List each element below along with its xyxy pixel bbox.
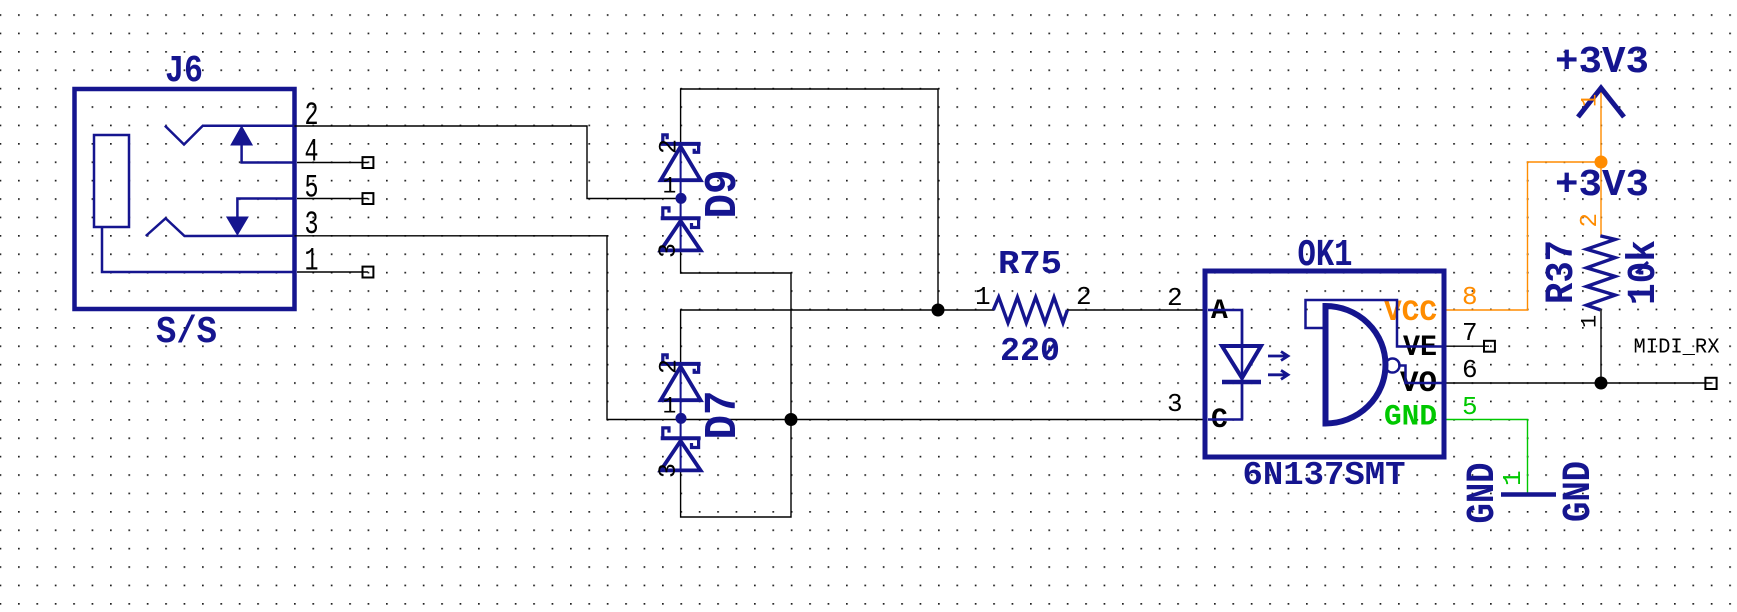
diode D9 (dual): [661, 135, 701, 251]
svg-text:1: 1: [305, 243, 319, 280]
wire node to R75.1: [938, 309, 994, 311]
svg-text:1: 1: [975, 282, 991, 312]
svg-text:3: 3: [654, 243, 683, 258]
svg-text:2: 2: [1076, 282, 1092, 312]
J6 pin 5 stub: [297, 198, 368, 200]
OK1 light arrows: [1268, 352, 1288, 361]
svg-text:+3V3: +3V3: [1555, 41, 1649, 84]
OK1 internal LED: [1222, 346, 1261, 378]
wire VCC net pin8 to +3V3: [1447, 162, 1602, 310]
svg-text:1: 1: [1578, 94, 1603, 107]
resistor R75: [993, 297, 1067, 323]
svg-text:2: 2: [655, 139, 684, 154]
wire +3V3 vertical: [1600, 90, 1602, 236]
svg-text:D7: D7: [698, 391, 749, 440]
ground bar: [1501, 492, 1556, 497]
svg-text:3: 3: [1167, 389, 1183, 419]
J6 sleeve contact: [94, 135, 129, 227]
OK1 pin 7 stub: [1447, 345, 1490, 347]
svg-text:3: 3: [305, 206, 319, 243]
svg-text:VE: VE: [1403, 331, 1437, 365]
svg-text:R75: R75: [998, 246, 1062, 283]
svg-text:S/S: S/S: [156, 311, 217, 354]
J6 tip switch arrow to pin 4: [242, 145, 295, 163]
svg-text:J6: J6: [165, 50, 203, 93]
wire D7.2 to R75 node: [681, 310, 938, 364]
R37 zero slash: [1636, 262, 1648, 273]
OK1 gate bubble: [1386, 359, 1400, 373]
junction node R75 input: [932, 304, 945, 317]
svg-text:2: 2: [305, 97, 319, 134]
junction +3V3 node: [1595, 156, 1608, 169]
svg-text:8: 8: [1462, 282, 1478, 312]
wire J6.3 to D7.1: [295, 236, 682, 420]
J6 ring contact: [146, 218, 295, 236]
svg-text:GND: GND: [1384, 401, 1437, 435]
svg-text:+3V3: +3V3: [1555, 164, 1649, 207]
R75 zero slash: [1044, 342, 1056, 357]
svg-text:1: 1: [663, 394, 677, 420]
wire J6.2 to D9.1: [295, 126, 682, 199]
svg-text:5: 5: [1462, 392, 1478, 422]
svg-text:1: 1: [663, 174, 677, 200]
svg-text:220: 220: [1000, 333, 1060, 370]
wire D7.1 to OK1.C: [681, 419, 1205, 421]
supply +3V3 symbol: [1578, 88, 1624, 117]
svg-text:6N137SMT: 6N137SMT: [1243, 457, 1406, 494]
wire R37.1 to VO node: [1600, 310, 1602, 383]
svg-text:1: 1: [1498, 470, 1528, 486]
OK1 gate: [1326, 306, 1386, 424]
svg-text:2: 2: [655, 359, 684, 374]
svg-text:10k: 10k: [1622, 240, 1667, 305]
resistor R37: [1587, 236, 1616, 310]
J6 ring switch arrow to pin 5: [237, 199, 294, 218]
svg-text:6: 6: [1462, 355, 1478, 385]
svg-text:5: 5: [305, 170, 319, 207]
J6 pin 1 stub: [297, 271, 368, 273]
OK1 bubble to VO: [1400, 366, 1445, 384]
OK1 internal LED wiring: [1208, 310, 1242, 346]
svg-text:MIDI_RX: MIDI_RX: [1634, 337, 1720, 360]
svg-text:7: 7: [1462, 318, 1478, 348]
wire D9.2 loop to R75 node: [681, 89, 938, 310]
diode D7 (dual): [661, 355, 701, 471]
wire D9.3 to D7.3 loop: [681, 250, 791, 517]
junction node C row: [785, 413, 798, 426]
svg-text:2: 2: [1577, 213, 1604, 227]
J6 pin 4 stub: [297, 162, 368, 164]
svg-text:D9: D9: [698, 170, 749, 219]
svg-text:GND: GND: [1557, 461, 1602, 522]
connector J6: [75, 89, 295, 309]
svg-text:R37: R37: [1540, 240, 1585, 304]
wire GND net pin5: [1447, 420, 1528, 494]
junction VO node: [1595, 377, 1608, 390]
svg-text:3: 3: [654, 463, 683, 478]
svg-text:2: 2: [1167, 283, 1183, 313]
J6 sleeve wire to pin 1: [102, 227, 295, 272]
J6 tip contact: [165, 126, 295, 145]
svg-text:OK1: OK1: [1298, 234, 1353, 277]
MIDI_RX endpoint square: [1705, 378, 1716, 389]
opto OK1 box: [1205, 271, 1444, 457]
svg-text:1: 1: [1578, 315, 1603, 328]
wire VO net to MIDI_RX: [1447, 382, 1712, 384]
OK1 enable line to VE: [1306, 300, 1445, 347]
wire R75.2 to OK1.A: [1067, 309, 1205, 311]
svg-text:A: A: [1211, 296, 1228, 327]
svg-text:4: 4: [305, 134, 319, 171]
